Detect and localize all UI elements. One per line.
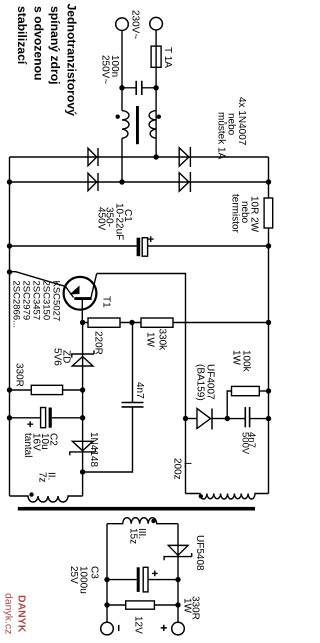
node snubber mid xyxy=(225,416,230,421)
svg-text:1W: 1W xyxy=(145,332,156,348)
choke phase dot upper xyxy=(157,115,161,119)
title text xyxy=(15,4,79,117)
wire bridge rail B xyxy=(10,181,269,183)
node 330R1W plus xyxy=(175,602,180,607)
wire 330R line xyxy=(10,389,83,391)
C2 plus mark xyxy=(27,421,33,427)
diode UF4007 xyxy=(186,418,198,420)
choke phase dot lower xyxy=(116,115,120,119)
svg-text:termistor: termistor xyxy=(230,194,241,234)
transistor T1 circle xyxy=(64,277,97,310)
svg-text:T 1A: T 1A xyxy=(162,47,173,68)
diode bridge D2 xyxy=(179,148,189,166)
svg-text:stabilizací: stabilizací xyxy=(15,6,29,65)
svg-text:můstek 1A: můstek 1A xyxy=(216,112,228,160)
node C1 top xyxy=(266,243,271,248)
node base lead on bus xyxy=(7,269,12,274)
svg-text:2SC2866...: 2SC2866... xyxy=(11,281,22,329)
svg-text:330k: 330k xyxy=(157,329,168,352)
diode 1N4148 xyxy=(72,441,92,451)
node C3 minus xyxy=(104,577,109,582)
capacitor C1 electrolytic xyxy=(148,245,269,247)
transformer core xyxy=(18,507,255,511)
capacitor C3 xyxy=(148,579,178,581)
node zener-330R junction xyxy=(80,387,85,392)
winding II feedback xyxy=(10,496,83,502)
wire bridge rail A xyxy=(10,156,269,158)
wire output plus xyxy=(177,524,179,623)
choke core xyxy=(136,106,139,144)
wire emitter line xyxy=(83,322,269,324)
svg-text:4n7: 4n7 xyxy=(134,382,145,399)
resistor 100k 1W xyxy=(227,391,231,418)
node 330R1W minus xyxy=(104,602,109,607)
node 100k on bus xyxy=(266,388,271,393)
svg-text:7z: 7z xyxy=(37,472,48,483)
wire plus top bus xyxy=(268,157,270,494)
resistor 330R 1W out xyxy=(154,604,178,606)
resistor 10R 2W xyxy=(264,198,273,228)
svg-text:4x 1N4007: 4x 1N4007 xyxy=(236,97,247,146)
node 4n7 junction xyxy=(80,469,85,474)
output plus mark xyxy=(161,625,167,631)
node AC lower on rail B xyxy=(119,179,124,184)
node C3 plus xyxy=(175,577,180,582)
capacitor C2 tantal xyxy=(52,417,83,419)
capacitor 4n7 xyxy=(122,402,144,404)
svg-text:UF5408: UF5408 xyxy=(194,535,205,571)
svg-text:s odvozenou: s odvozenou xyxy=(32,6,46,80)
node emitter line on plus bus xyxy=(266,320,271,325)
svg-text:Jednotranzistorový: Jednotranzistorový xyxy=(65,4,79,117)
svg-text:1W: 1W xyxy=(231,350,242,366)
winding II phase dot xyxy=(29,492,33,496)
zener ZD 5V6 xyxy=(72,350,94,357)
svg-text:T1: T1 xyxy=(101,296,112,308)
T1 base lead xyxy=(10,272,74,298)
svg-text:spínaný zdroj: spínaný zdroj xyxy=(48,6,62,85)
svg-text:15z: 15z xyxy=(128,528,139,544)
svg-text:5V6: 5V6 xyxy=(52,348,63,366)
winding I phase dot xyxy=(199,494,203,498)
terminal output minus xyxy=(101,622,114,635)
T1 collector lead xyxy=(91,274,97,298)
node AC upper on rail A xyxy=(153,154,158,159)
node snubber top on bus xyxy=(266,416,271,421)
resistor 330R xyxy=(31,385,62,394)
node X-cap upper xyxy=(153,85,158,90)
resistor 220R xyxy=(88,318,120,327)
node 220R-330k junction xyxy=(129,320,134,325)
node C1 bottom xyxy=(7,243,12,248)
winding III phase dot xyxy=(151,519,155,523)
svg-text:330R: 330R xyxy=(14,363,25,387)
node 330R on bus xyxy=(7,387,12,392)
T1 emitter lead xyxy=(81,300,83,323)
wire mains lower xyxy=(121,31,123,111)
winding III secondary xyxy=(107,518,178,524)
node C2 on bus xyxy=(7,415,12,420)
label KSC5027 xyxy=(11,281,62,329)
node X-cap lower xyxy=(119,85,124,90)
svg-text:500V: 500V xyxy=(240,432,251,455)
C1 plus mark xyxy=(148,236,154,242)
node emitter junction xyxy=(80,320,85,325)
node rail B bottom xyxy=(7,179,12,184)
svg-text:(BA159): (BA159) xyxy=(195,364,206,401)
wire collector xyxy=(97,274,186,494)
node zener-C2 junction xyxy=(80,415,85,420)
node rail B top xyxy=(266,179,271,184)
svg-text:DANYK: DANYK xyxy=(16,595,28,633)
wire output minus xyxy=(106,524,108,623)
svg-text:12V: 12V xyxy=(133,616,144,634)
node snubber on collector xyxy=(183,416,188,421)
terminal mains L xyxy=(150,17,163,30)
wire to 4n7 xyxy=(132,323,134,403)
diode UF5408 xyxy=(168,544,189,546)
wire 4n7 to junction xyxy=(83,407,133,472)
svg-text:1W: 1W xyxy=(182,598,193,614)
svg-text:250V~: 250V~ xyxy=(100,55,111,84)
svg-text:200z: 200z xyxy=(172,458,183,480)
svg-text:C3: C3 xyxy=(89,566,100,579)
svg-text:danyk.cz: danyk.cz xyxy=(3,593,15,634)
svg-text:25V: 25V xyxy=(68,566,79,584)
capacitor 100n X-cap xyxy=(142,87,156,89)
capacitor 4n7 500V xyxy=(227,418,245,420)
resistor 330k 1W xyxy=(141,318,173,327)
T1 emitter arrow xyxy=(70,286,80,295)
svg-text:230V~: 230V~ xyxy=(130,10,141,39)
C3 plus mark xyxy=(152,571,158,577)
T1 base bar xyxy=(74,297,91,300)
diode bridge D1 xyxy=(88,148,97,166)
winding I primary xyxy=(186,494,269,500)
terminal mains N xyxy=(116,18,129,31)
terminal output plus xyxy=(172,622,185,635)
inductor common-mode choke lower winding xyxy=(122,111,129,139)
fuse T1A xyxy=(155,46,157,67)
svg-text:1N4148: 1N4148 xyxy=(88,432,99,467)
wire minus bottom bus xyxy=(9,157,11,496)
diode bridge D3 xyxy=(88,173,97,191)
diode bridge D4 xyxy=(179,173,189,191)
svg-text:tantal: tantal xyxy=(22,433,33,457)
inductor common-mode choke upper winding xyxy=(149,111,156,139)
svg-text:450V: 450V xyxy=(96,207,107,231)
wire mains upper xyxy=(155,30,157,46)
wire zener line xyxy=(82,323,84,497)
output minus mark xyxy=(118,625,120,631)
